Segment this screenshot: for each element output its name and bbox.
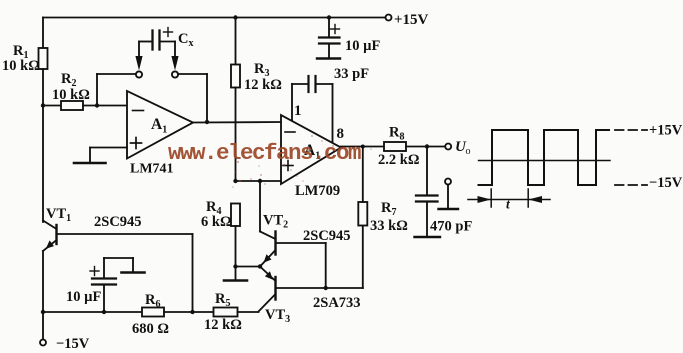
annotation: period t [468,189,550,212]
resistor R2 10 kΩ [43,71,127,110]
svg-text:10 µF: 10 µF [66,289,101,305]
capacitor C1 10 µF (supply decoupling) [317,15,380,58]
svg-text:2SC945: 2SC945 [303,228,351,244]
power terminal -15V [40,336,90,352]
wire: bottom -15V rail [41,310,195,314]
resistor R4 6 kΩ [201,199,240,267]
wire: A2 output [341,146,384,148]
svg-text:−15V: −15V [649,175,683,191]
op-amp U2 A2 LM709 [281,103,344,199]
transistor Q3 VT3 2SA733 [259,267,363,326]
op-amp U1 A1 LM741 [127,91,193,177]
node: A1 inverting input [95,103,99,107]
wire: A2 non-inverting input [233,179,281,183]
node: R2 left junction [41,103,45,107]
watermark www.elecfans.com [168,140,361,166]
resistor R3 12 kΩ [231,15,282,181]
svg-text:www.elecfans.com: www.elecfans.com [168,140,361,166]
wire: VT1 emitter down left rail [42,251,44,340]
svg-text:1: 1 [294,103,302,119]
wire: left supply branch (top rail down to R1) [42,18,44,49]
svg-text:680 Ω: 680 Ω [132,321,169,337]
wire: VT1 base down to bottom rail [192,234,194,312]
wire: A1 output to A2 inverting input [193,120,281,124]
ground (A1 non-inverting input) [74,148,127,164]
ground (C2 top) [122,271,145,274]
wire: R1 to VT1 collector branch [42,69,44,222]
scan speckle artifacts [232,135,372,188]
waveform: output square wave [479,123,683,192]
power terminal +15V [386,12,429,28]
resistor R8 2.2 kΩ [378,125,445,169]
svg-text:2.2 kΩ: 2.2 kΩ [378,152,419,168]
svg-text:470 pF: 470 pF [430,219,472,235]
ground (R4 / bias node) [224,264,247,280]
svg-text:12 kΩ: 12 kΩ [204,317,242,333]
svg-text:6 kΩ: 6 kΩ [201,214,232,230]
resistor R6 680 Ω [132,292,214,337]
capacitor Cx (capacitor under test, with plug-in terminals) [97,28,207,123]
svg-text:2SA733: 2SA733 [313,295,361,311]
svg-text:LM709: LM709 [295,183,340,199]
capacitor C3 33 pF (A2 compensation) [292,66,369,143]
resistor R1 10 kΩ [2,43,48,74]
svg-text:o: o [466,146,471,157]
wire: bias node to emitters node [236,264,263,268]
svg-text:−15V: −15V [56,336,90,352]
resistor R5 12 kΩ [204,291,259,333]
svg-text:33 pF: 33 pF [334,66,369,82]
svg-text:+15V: +15V [649,123,683,139]
svg-text:2SC945: 2SC945 [94,214,142,230]
transistor Q2 VT2 2SC945 [260,181,351,288]
svg-text:10 µF: 10 µF [345,38,380,54]
resistor R7 33 kΩ [358,145,408,289]
ground probe terminal (next to 470 pF) [439,179,459,210]
svg-text:10 kΩ: 10 kΩ [2,58,40,74]
svg-text:+15V: +15V [394,12,429,28]
node: bases junction [324,286,328,290]
svg-text:33 kΩ: 33 kΩ [370,218,408,234]
capacitor C4 470 pF [415,144,473,237]
svg-text:10 kΩ: 10 kΩ [52,87,90,103]
wire: top +15V supply rail [43,17,386,19]
output terminal Uo [445,139,470,157]
transistor Q1 VT1 2SC945 [43,206,193,251]
capacitor C2 10 µF (bottom) [66,258,133,314]
svg-text:12 kΩ: 12 kΩ [244,77,282,93]
